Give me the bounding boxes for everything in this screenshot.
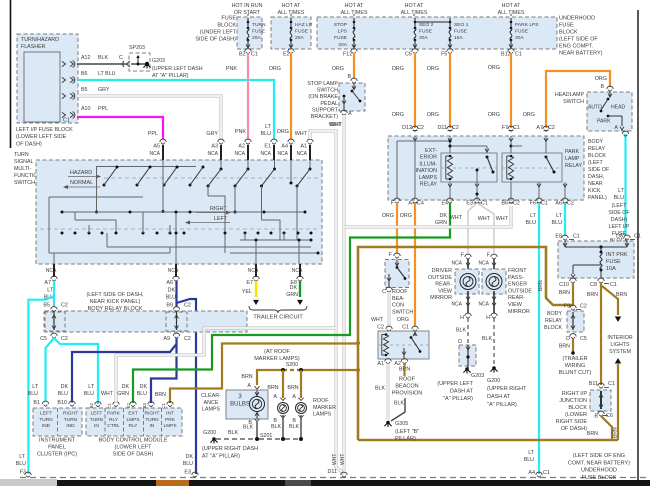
svg-text:C5: C5 — [40, 336, 47, 342]
svg-text:D11: D11 — [328, 469, 338, 475]
svg-text:BLU: BLU — [526, 220, 537, 226]
svg-text:TURN: TURN — [145, 417, 159, 423]
svg-text:C1: C1 — [402, 325, 409, 331]
svg-text:SIDE OF DASH): SIDE OF DASH) — [195, 37, 236, 43]
svg-text:B2: B2 — [239, 52, 246, 58]
wire BLK flasher A12 to SP203 — [77, 63, 127, 65]
svg-text:ANCE: ANCE — [204, 400, 219, 406]
svg-text:D8: D8 — [616, 234, 623, 240]
instrument panel cluster — [33, 408, 82, 436]
roof marker lamp left — [280, 398, 285, 401]
wire WHT A1 to D11 bottom — [310, 131, 344, 474]
svg-text:SUPPORT: SUPPORT — [312, 107, 339, 113]
svg-text:A1: A1 — [377, 361, 384, 367]
svg-text:ILLUM-: ILLUM- — [419, 161, 437, 167]
svg-text:E1: E1 — [264, 144, 271, 150]
svg-text:ORG: ORG — [523, 112, 535, 118]
wire PNK turn fuse to A2 — [247, 53, 249, 140]
svg-text:CTRL: CTRL — [107, 423, 120, 429]
fuse block (haz lp) — [271, 17, 311, 49]
svg-text:B: B — [594, 414, 598, 420]
svg-text:DK: DK — [168, 288, 176, 294]
svg-text:C2: C2 — [61, 336, 68, 342]
svg-text:NEAR: NEAR — [588, 181, 603, 187]
svg-text:GRN: GRN — [435, 220, 447, 226]
svg-text:SWITCH: SWITCH — [14, 180, 35, 186]
svg-text:C2: C2 — [567, 201, 574, 207]
svg-text:SIDE OF DASH): SIDE OF DASH) — [113, 452, 154, 458]
svg-text:SIDE OF: SIDE OF — [608, 210, 630, 216]
svg-text:NORMAL: NORMAL — [70, 180, 93, 186]
svg-text:LT: LT — [530, 213, 537, 219]
svg-text:BLK: BLK — [375, 386, 385, 392]
relay coil ext illum — [447, 156, 452, 179]
svg-text:HOT AT: HOT AT — [282, 3, 301, 9]
svg-text:WHT: WHT — [371, 317, 384, 323]
svg-text:AT "A" PILLAR): AT "A" PILLAR) — [202, 454, 240, 460]
svg-text:AUTO: AUTO — [588, 105, 602, 111]
svg-text:B: B — [600, 84, 604, 90]
connector BCM DK BLU pin — [148, 402, 154, 405]
svg-text:LT: LT — [88, 384, 95, 390]
svg-text:PILLAR): PILLAR) — [395, 436, 416, 442]
relay contact ext illum — [486, 156, 489, 159]
wire DK GRN E4 to BCM — [133, 203, 450, 403]
svg-text:PARK LPS: PARK LPS — [515, 22, 539, 28]
svg-text:IN: IN — [94, 423, 99, 429]
svg-text:NEAR BATTERY): NEAR BATTERY) — [559, 51, 603, 57]
svg-text:LAMPS: LAMPS — [313, 412, 332, 418]
wire BLK A1 to G305 — [387, 364, 390, 421]
svg-text:D: D — [458, 339, 462, 345]
stop lamp switch — [351, 78, 357, 81]
svg-text:BLK: BLK — [98, 55, 108, 61]
svg-text:MARKER: MARKER — [313, 405, 336, 411]
svg-text:BLOCK: BLOCK — [217, 23, 236, 29]
wire WHT E3 to mirrors — [468, 203, 477, 253]
svg-text:IND: IND — [66, 423, 75, 429]
svg-text:NCA: NCA — [451, 261, 462, 267]
svg-text:DK: DK — [290, 285, 298, 291]
fuse INT PRK 10A — [600, 247, 602, 251]
wire GRY flasher B5 to A3 — [77, 96, 221, 139]
svg-text:NCA: NCA — [248, 268, 259, 274]
svg-text:E2: E2 — [126, 402, 131, 408]
svg-text:LAMPS: LAMPS — [202, 407, 221, 413]
switch internal contacts — [96, 166, 196, 168]
svg-text:B3: B3 — [142, 402, 147, 408]
svg-text:A: A — [348, 111, 352, 117]
svg-text:WHT: WHT — [295, 131, 308, 137]
svg-text:(TRAILER: (TRAILER — [562, 356, 587, 362]
svg-text:A4: A4 — [528, 470, 535, 476]
wire BRN to roof marker lamp A (right) — [300, 370, 302, 398]
svg-text:B10: B10 — [57, 400, 67, 406]
fuse SEO 1 15A — [449, 18, 451, 22]
wire YEL E7 trailer — [255, 281, 257, 297]
svg-text:(UPPER RIGHT DASH: (UPPER RIGHT DASH — [202, 446, 258, 452]
svg-text:DASH,: DASH, — [588, 174, 604, 180]
svg-text:"A" PILLAR): "A" PILLAR) — [443, 396, 473, 402]
svg-text:IND: IND — [42, 423, 51, 429]
svg-text:LT: LT — [618, 188, 625, 194]
svg-text:F6: F6 — [530, 201, 536, 207]
svg-text:BRN: BRN — [613, 427, 619, 438]
svg-text:OUTSIDE: OUTSIDE — [508, 288, 532, 294]
svg-text:(AT ROOF: (AT ROOF — [264, 349, 290, 355]
svg-text:G203: G203 — [152, 58, 165, 64]
svg-text:(LOWER LEFT: (LOWER LEFT — [115, 445, 153, 451]
svg-text:NCA: NCA — [207, 151, 218, 157]
svg-text:ENGER: ENGER — [508, 282, 527, 288]
svg-text:"A" PILLAR): "A" PILLAR) — [487, 402, 517, 408]
svg-text:FLASHER: FLASHER — [21, 44, 46, 50]
wire BLK lamp left — [282, 415, 284, 437]
svg-text:WHT: WHT — [450, 215, 463, 221]
svg-text:OUTSIDE: OUTSIDE — [428, 275, 452, 281]
svg-text:PROVISION: PROVISION — [392, 391, 423, 397]
connector BCM WHT pin — [113, 402, 119, 405]
svg-text:SWITCH: SWITCH — [317, 88, 338, 94]
svg-text:C1: C1 — [634, 234, 641, 240]
svg-text:GRN: GRN — [286, 292, 298, 298]
svg-text:BRN: BRN — [616, 292, 627, 298]
svg-text:B9: B9 — [166, 303, 173, 309]
svg-text:STOP LAMP: STOP LAMP — [307, 81, 338, 87]
svg-text:INTERIOR: INTERIOR — [607, 335, 632, 341]
svg-text:BLU: BLU — [84, 391, 94, 397]
wire ORG park lps fuse to F7 — [510, 53, 512, 129]
svg-text:RLY: RLY — [129, 423, 139, 429]
svg-text:A: A — [292, 394, 296, 400]
bottom dashed boundary — [20, 477, 650, 479]
svg-text:A2: A2 — [238, 144, 245, 150]
turn/hazard flasher — [17, 34, 78, 123]
wire BRN branch to BCM — [170, 344, 358, 404]
svg-text:BRN: BRN — [559, 344, 570, 350]
svg-text:A5: A5 — [153, 144, 160, 150]
svg-text:20A: 20A — [338, 42, 347, 48]
svg-text:PASS-: PASS- — [508, 275, 524, 281]
svg-text:BODY: BODY — [588, 139, 603, 145]
svg-text:20A: 20A — [252, 35, 261, 41]
ground G305 — [386, 421, 390, 425]
wire ORG headlamp switch B feed — [546, 71, 610, 128]
body relay block (relays) — [388, 136, 584, 200]
svg-text:VIEW: VIEW — [438, 288, 453, 294]
right I/P junction block — [590, 390, 611, 411]
fuse block (under left side of dash) — [237, 17, 262, 49]
svg-text:CLEAR-: CLEAR- — [201, 393, 221, 399]
svg-text:HAZARD: HAZARD — [70, 170, 92, 176]
svg-text:NCA: NCA — [168, 268, 179, 274]
svg-text:DASH AT: DASH AT — [450, 389, 474, 395]
svg-text:BLK: BLK — [394, 401, 404, 407]
svg-text:ROOF: ROOF — [399, 377, 416, 383]
connector BCM LT BLU pin — [95, 402, 101, 405]
svg-text:ORG: ORG — [269, 66, 281, 72]
svg-text:WHT: WHT — [332, 454, 338, 465]
wire DK BLU A9 to B10/BCM — [72, 338, 177, 401]
svg-text:D: D — [566, 336, 570, 342]
trailer circuit brace — [249, 306, 307, 313]
svg-text:SWITCH: SWITCH — [392, 309, 413, 315]
svg-text:REAR-: REAR- — [508, 295, 525, 301]
wire BLK driver mirror to G203 — [467, 318, 469, 343]
svg-text:F5: F5 — [441, 52, 447, 58]
svg-text:F7: F7 — [502, 125, 508, 131]
svg-text:RELAY: RELAY — [420, 182, 438, 188]
svg-text:BULBS: BULBS — [230, 402, 250, 408]
svg-text:A: A — [614, 125, 618, 131]
svg-text:PPL: PPL — [148, 131, 158, 137]
svg-text:BODY: BODY — [547, 311, 562, 317]
svg-text:HAZ LP: HAZ LP — [295, 22, 312, 28]
svg-text:PANEL: PANEL — [48, 445, 66, 451]
wire BRN C8 to B11 — [600, 283, 602, 385]
svg-text:HOT AT: HOT AT — [345, 3, 364, 9]
svg-text:FUSE: FUSE — [454, 29, 468, 35]
svg-text:C1: C1 — [161, 402, 166, 408]
svg-text:LT: LT — [19, 454, 26, 460]
svg-text:BLU: BLU — [137, 391, 147, 397]
svg-text:PNK: PNK — [226, 66, 237, 72]
wire BRN bus bottom — [358, 439, 618, 442]
wire LT BLU flasher B6 to E1 — [77, 80, 274, 139]
svg-text:A10: A10 — [81, 106, 90, 112]
wire WHT to BCM — [116, 328, 336, 402]
svg-text:TURN: TURN — [90, 417, 104, 423]
body control module — [86, 408, 182, 436]
wire ORG seo2 fuse to D12 — [414, 53, 416, 129]
svg-text:C1: C1 — [107, 402, 112, 408]
svg-text:C2: C2 — [580, 304, 587, 310]
svg-text:S200: S200 — [286, 362, 298, 368]
svg-text:A6: A6 — [555, 201, 562, 207]
svg-text:C2: C2 — [184, 336, 191, 342]
svg-text:ROOF: ROOF — [392, 289, 408, 295]
svg-text:PRK: PRK — [165, 417, 176, 423]
svg-text:HOT AT: HOT AT — [502, 3, 521, 9]
svg-text:LT BLU: LT BLU — [98, 71, 116, 77]
wire BRN S200 bus — [301, 369, 358, 371]
svg-text:E4: E4 — [441, 201, 448, 207]
svg-text:DK: DK — [440, 213, 448, 219]
svg-text:A7: A7 — [536, 125, 543, 131]
svg-text:NCA: NCA — [234, 151, 245, 157]
connector BCM BRN pin — [167, 402, 173, 405]
svg-text:E3: E3 — [184, 470, 191, 476]
wire BRN main loop — [358, 247, 573, 440]
svg-text:SP203: SP203 — [129, 45, 145, 51]
svg-text:ROOF: ROOF — [313, 398, 329, 404]
wire ORG haz fuse to A4 — [290, 53, 292, 140]
svg-text:BLK: BLK — [289, 424, 299, 430]
wire PPL flasher A10 to A5 — [77, 117, 163, 139]
fuse HAZ LP 20A — [290, 18, 292, 22]
wire ORG seo1 fuse to D11 — [449, 53, 451, 129]
svg-text:D11: D11 — [438, 125, 448, 131]
svg-text:BRN: BRN — [155, 392, 166, 398]
svg-text:NCA: NCA — [260, 151, 271, 157]
wire BLK 3 bulbs to S201 — [256, 422, 258, 437]
svg-text:C: C — [119, 55, 123, 61]
svg-text:HEADLAMP: HEADLAMP — [555, 92, 585, 98]
svg-text:NCA: NCA — [478, 261, 489, 267]
svg-text:YEL: YEL — [242, 289, 252, 295]
svg-text:ORG: ORG — [488, 112, 500, 118]
svg-text:A: A — [273, 394, 277, 400]
wire ORG stop fuse to stop lamp switch B — [353, 53, 355, 79]
wire BRN to roof marker lamp A (left) — [282, 370, 284, 398]
switch exit risers — [53, 253, 55, 264]
svg-text:PPL: PPL — [98, 106, 108, 112]
svg-text:(UPPER LEFT: (UPPER LEFT — [437, 381, 473, 387]
svg-text:UNDERHOOD: UNDERHOOD — [581, 468, 617, 474]
svg-text:ORG: ORG — [392, 66, 404, 72]
svg-text:S201: S201 — [260, 433, 272, 439]
wire DK GRN E8 trailer — [299, 281, 301, 297]
svg-text:RELAY: RELAY — [545, 318, 562, 324]
svg-text:EXT-: EXT- — [425, 148, 437, 154]
svg-text:BEACON: BEACON — [395, 384, 418, 390]
int prk fuse block — [558, 241, 634, 278]
svg-text:ORG: ORG — [427, 112, 439, 118]
svg-text:(LEFT "B": (LEFT "B" — [395, 429, 419, 435]
svg-text:DRIVER: DRIVER — [432, 268, 452, 274]
wire LT BLU A7 to B5 — [53, 296, 55, 307]
svg-text:BRN: BRN — [559, 290, 570, 296]
svg-text:PANEL): PANEL) — [588, 195, 607, 201]
svg-text:SIGNAL: SIGNAL — [14, 159, 33, 165]
svg-text:HEAD: HEAD — [611, 105, 625, 111]
wire BLK lamp right — [300, 415, 302, 437]
relay contact park lamp — [545, 156, 548, 159]
pass-through B9 to A9 — [166, 312, 187, 331]
svg-text:(UPPER RIGHT: (UPPER RIGHT — [487, 386, 527, 392]
svg-text:LAMP: LAMP — [565, 156, 580, 162]
svg-text:FUSE: FUSE — [419, 29, 433, 35]
svg-text:RELAY: RELAY — [565, 163, 582, 169]
svg-text:A9: A9 — [163, 336, 170, 342]
wire LT BLU C5 to BCM — [54, 338, 98, 404]
svg-text:WHT: WHT — [330, 122, 343, 128]
svg-text:C2: C2 — [184, 303, 191, 309]
svg-text:B11: B11 — [589, 381, 598, 387]
svg-text:TURN: TURN — [14, 152, 29, 158]
svg-text:DK: DK — [186, 454, 194, 460]
svg-text:NCA: NCA — [149, 151, 160, 157]
svg-text:TURN: TURN — [252, 22, 266, 28]
svg-text:LPS: LPS — [338, 29, 348, 35]
svg-text:(LOWER: (LOWER — [565, 412, 587, 418]
svg-text:C2: C2 — [377, 325, 384, 331]
svg-text:(LOWER LEFT SIDE: (LOWER LEFT SIDE — [16, 134, 67, 140]
svg-text:BLU: BLU — [166, 295, 176, 301]
svg-text:H: H — [460, 315, 464, 321]
wire LT BLU headlamp switch A to D8 — [624, 134, 626, 236]
svg-text:BLU: BLU — [614, 195, 625, 201]
svg-text:LT: LT — [265, 124, 272, 130]
wire LT BLU A7 branch to F3 bottom — [28, 281, 54, 474]
svg-text:FUSE: FUSE — [606, 259, 621, 265]
svg-text:HOT AT: HOT AT — [405, 3, 424, 9]
wire BRN A2 to roof beacon provision — [403, 364, 405, 377]
svg-text:BLU: BLU — [28, 391, 38, 397]
svg-text:C1: C1 — [541, 201, 548, 207]
switch lower buses — [240, 239, 311, 241]
svg-text:CON: CON — [392, 303, 404, 309]
svg-text:BLOCK: BLOCK — [544, 325, 562, 331]
svg-text:AT "A" PILLAR): AT "A" PILLAR) — [152, 73, 189, 79]
svg-text:(LEFT SIDE OF: (LEFT SIDE OF — [559, 37, 598, 43]
svg-text:ORG: ORG — [427, 66, 439, 72]
wire ORG F to roof beacon switch — [396, 203, 398, 253]
svg-text:B5: B5 — [43, 303, 50, 309]
svg-text:MULTI-: MULTI- — [14, 166, 31, 172]
svg-text:FUSE: FUSE — [515, 29, 529, 35]
svg-text:ORG: ORG — [382, 213, 394, 219]
svg-text:DK: DK — [140, 384, 148, 390]
svg-text:SEO 2: SEO 2 — [419, 22, 434, 28]
svg-text:GRY: GRY — [206, 131, 218, 137]
underhood fuse block strip — [317, 17, 557, 49]
svg-text:EXT: EXT — [128, 411, 137, 417]
svg-text:(LEFT: (LEFT — [588, 160, 603, 166]
fuse SEO 2 30A — [414, 18, 416, 22]
svg-text:BRN: BRN — [587, 292, 598, 298]
svg-text:G203: G203 — [471, 373, 484, 379]
svg-text:DK: DK — [61, 384, 69, 390]
svg-text:A4: A4 — [281, 144, 288, 150]
svg-text:RIGHT I/P: RIGHT I/P — [562, 391, 588, 397]
svg-text:WHT: WHT — [478, 216, 491, 222]
svg-text:C1: C1 — [515, 52, 522, 58]
svg-text:DK: DK — [122, 384, 130, 390]
svg-text:G200: G200 — [203, 430, 216, 436]
svg-text:BEA-: BEA- — [392, 296, 405, 302]
svg-text:(ON BRAKE: (ON BRAKE — [308, 94, 338, 100]
svg-text:PARK: PARK — [597, 119, 611, 125]
svg-text:C1: C1 — [543, 470, 550, 476]
svg-text:LMPS: LMPS — [126, 417, 139, 423]
wire WHT stop lamp switch A to D11 bottom — [342, 115, 345, 471]
svg-text:E8: E8 — [555, 234, 562, 240]
svg-text:(LEFT SIDE OF ENG: (LEFT SIDE OF ENG — [573, 453, 625, 459]
svg-text:C1: C1 — [610, 282, 617, 288]
svg-text:E2: E2 — [283, 52, 290, 58]
svg-text:COMT. NEAR BATTERY): COMT. NEAR BATTERY) — [568, 460, 630, 466]
svg-text:BLU: BLU — [552, 220, 563, 226]
svg-text:RLY: RLY — [109, 417, 119, 423]
svg-text:A3: A3 — [211, 144, 218, 150]
svg-text:SEO 1: SEO 1 — [454, 22, 469, 28]
svg-text:WIRING: WIRING — [565, 363, 585, 369]
fuse STOP LPS 20A — [353, 18, 355, 22]
svg-text:ORG: ORG — [392, 112, 404, 118]
svg-text:REAR-: REAR- — [435, 282, 452, 288]
svg-text:BLK: BLK — [456, 328, 466, 334]
svg-text:H: H — [486, 315, 490, 321]
svg-text:NCA: NCA — [451, 302, 462, 308]
svg-text:FUSE: FUSE — [295, 29, 309, 35]
svg-text:C5: C5 — [405, 52, 412, 58]
svg-text:E7: E7 — [246, 280, 253, 286]
svg-text:BRN: BRN — [587, 431, 598, 437]
svg-text:D12: D12 — [402, 125, 412, 131]
svg-text:RIGHT: RIGHT — [145, 411, 160, 417]
fuse PARK LPS 30A — [510, 18, 512, 22]
